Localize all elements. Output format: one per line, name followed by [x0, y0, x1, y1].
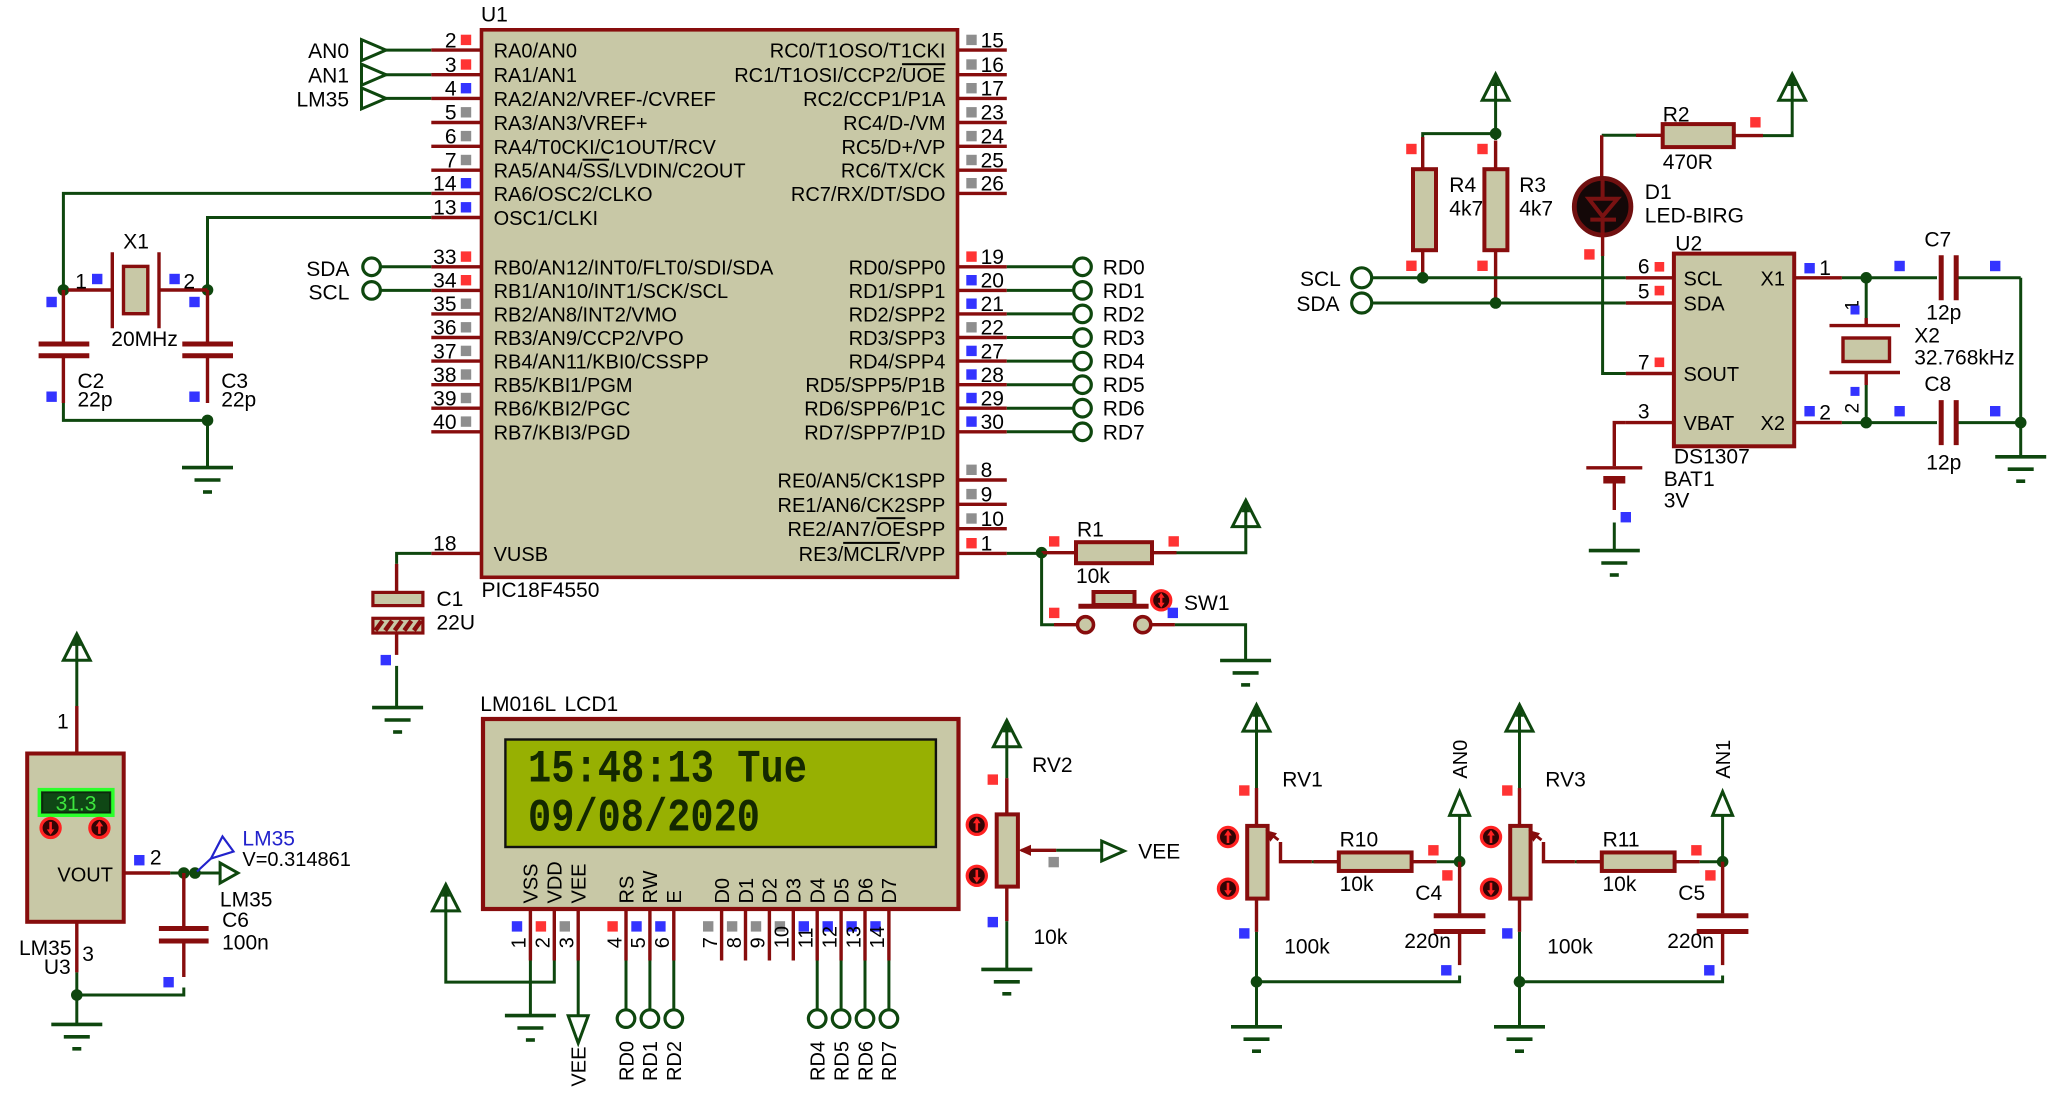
IC U1 PIC18F4550 body	[482, 30, 958, 578]
svg-text:8: 8	[724, 937, 746, 948]
svg-text:20: 20	[981, 270, 1004, 293]
svg-text:6: 6	[1638, 256, 1650, 279]
svg-text:RD0: RD0	[616, 1041, 638, 1081]
svg-text:220n: 220n	[1404, 930, 1451, 953]
U2 pin 6 SCL	[1626, 276, 1674, 279]
crystal X2 32.768kHz	[1865, 278, 1868, 318]
power +5V (R2)	[1779, 74, 1806, 100]
svg-text:5: 5	[1638, 281, 1650, 304]
power +5V (RV2)	[993, 720, 1020, 746]
capacitor C8 12p	[1866, 421, 1937, 424]
resistor R1 10k	[1042, 551, 1076, 554]
U1 pin 9	[958, 503, 1007, 506]
node LM35 ground	[71, 989, 83, 1001]
svg-text:3: 3	[1638, 400, 1650, 423]
svg-text:RA3/AN3/VREF+: RA3/AN3/VREF+	[494, 113, 648, 135]
svg-text:X1: X1	[1761, 268, 1785, 290]
svg-text:2: 2	[1819, 402, 1831, 425]
U1 pin 39 RB6	[431, 407, 480, 410]
node RV3 ground	[1514, 976, 1526, 988]
U1 pin 40 RB7	[431, 430, 480, 433]
node X1	[1860, 272, 1872, 284]
svg-text:3: 3	[557, 937, 579, 948]
wire LM35 pin1	[75, 660, 78, 706]
svg-text:D7: D7	[879, 878, 901, 904]
svg-text:RC4/D-/VM: RC4/D-/VM	[843, 113, 945, 135]
svg-text:R3: R3	[1519, 174, 1546, 197]
terminal RD2 (LCD)	[672, 961, 675, 1010]
svg-text:24: 24	[981, 126, 1005, 149]
svg-text:RD1/SPP1: RD1/SPP1	[849, 281, 946, 303]
svg-text:RB6/KBI2/PGC: RB6/KBI2/PGC	[494, 399, 631, 421]
svg-text:4: 4	[445, 78, 457, 101]
svg-text:6: 6	[445, 126, 457, 149]
svg-text:C8: C8	[1924, 373, 1951, 396]
wire AN0 to U1	[386, 49, 431, 52]
voltage probe LM35 (blue)	[211, 837, 234, 859]
svg-text:7: 7	[700, 937, 722, 948]
svg-text:5: 5	[445, 102, 457, 125]
svg-text:RB7/KBI3/PGD: RB7/KBI3/PGD	[494, 422, 631, 444]
svg-text:34: 34	[433, 270, 457, 293]
ground (RV1)	[1231, 1025, 1282, 1029]
svg-text:1: 1	[1819, 257, 1831, 280]
U1 pin 26	[958, 192, 1007, 195]
resistor R3 4k7	[1494, 134, 1497, 140]
wire X1 to crystal	[1842, 276, 1866, 279]
terminal RD7 (LCD)	[887, 961, 890, 1010]
svg-text:VSS: VSS	[521, 863, 543, 903]
svg-text:18: 18	[433, 533, 456, 556]
wire LCD VSS to ground	[529, 961, 532, 1016]
wire SCL to U1 pin34	[381, 289, 431, 292]
svg-text:RE0/AN5/CK1SPP: RE0/AN5/CK1SPP	[778, 471, 946, 493]
node R4/R3 VCC	[1490, 128, 1502, 140]
potentiometer RV3 100k	[1518, 788, 1521, 826]
svg-text:5: 5	[628, 937, 650, 948]
svg-text:RD4/SPP4: RD4/SPP4	[849, 352, 946, 374]
svg-text:12: 12	[819, 926, 841, 948]
U1 pin 13 OSC1	[431, 216, 480, 219]
capacitor C6 100n	[182, 873, 185, 926]
svg-text:22: 22	[981, 317, 1004, 340]
svg-text:29: 29	[981, 387, 1004, 410]
U2 pin 7 SOUT	[1626, 372, 1674, 375]
svg-text:RD7: RD7	[879, 1041, 901, 1081]
svg-text:RC2/CCP1/P1A: RC2/CCP1/P1A	[803, 89, 946, 111]
svg-text:LM35: LM35	[242, 828, 295, 851]
svg-text:10: 10	[772, 926, 794, 948]
terminal LM35 (output)	[220, 863, 238, 883]
svg-text:7: 7	[1638, 351, 1650, 374]
U1 pin 14 RA6	[431, 192, 480, 195]
ground (crystal)	[182, 466, 233, 470]
svg-text:RS: RS	[616, 876, 638, 904]
node X1 pin1	[58, 284, 70, 296]
power +5V (LCD VDD)	[432, 885, 459, 911]
svg-text:3: 3	[445, 54, 457, 77]
svg-text:RA4/T0CKI/C1OUT/RCV: RA4/T0CKI/C1OUT/RCV	[494, 137, 717, 159]
U1 pin 1	[958, 552, 1007, 555]
node SDA/R3	[1490, 297, 1502, 309]
U1 pin 27	[958, 359, 1007, 362]
U1 pin 38 RB5	[431, 383, 480, 386]
ground (C1)	[372, 706, 423, 710]
RV3 actuator up	[1481, 827, 1500, 846]
svg-text:2: 2	[1843, 403, 1864, 414]
U2 pin 3 VBAT	[1626, 421, 1674, 424]
U1 pin 35 RB2	[431, 312, 480, 315]
svg-text:10k: 10k	[1076, 565, 1110, 588]
svg-text:LM35: LM35	[296, 88, 349, 111]
svg-text:C4: C4	[1415, 882, 1442, 905]
terminal AN0	[1458, 816, 1461, 862]
svg-text:2: 2	[445, 29, 457, 52]
svg-text:RE3/MCLR/VPP: RE3/MCLR/VPP	[799, 544, 946, 566]
resistor R11 10k	[1575, 860, 1602, 863]
terminal RD5 (LCD)	[840, 961, 843, 1010]
wire RV1 top	[1255, 731, 1258, 788]
svg-text:C1: C1	[437, 588, 464, 611]
svg-text:RB1/AN10/INT1/SCK/SCL: RB1/AN10/INT1/SCK/SCL	[494, 281, 729, 303]
svg-text:D4: D4	[808, 878, 830, 904]
node VOUT b	[189, 867, 201, 879]
U1 pin 17	[958, 97, 1007, 100]
sensor U3 LM35 body	[27, 754, 124, 922]
svg-text:DS1307: DS1307	[1674, 446, 1750, 469]
svg-text:8: 8	[981, 459, 993, 482]
ground (LM35)	[51, 1023, 102, 1027]
svg-text:RE2/AN7/OESPP: RE2/AN7/OESPP	[788, 519, 946, 541]
svg-text:X1: X1	[123, 231, 149, 254]
U1 pin 3 RA1	[431, 73, 480, 76]
input terminal LM35	[362, 88, 387, 109]
input terminal AN0	[362, 40, 387, 61]
svg-text:14: 14	[433, 173, 457, 196]
svg-text:14: 14	[867, 926, 889, 948]
terminal RD7	[1007, 430, 1074, 433]
svg-text:VEE: VEE	[1138, 841, 1180, 864]
svg-text:RA5/AN4/SS/LVDIN/C2OUT: RA5/AN4/SS/LVDIN/C2OUT	[494, 161, 746, 183]
svg-text:AN0: AN0	[1450, 740, 1472, 779]
node RV1 ground	[1251, 976, 1263, 988]
svg-text:D1: D1	[736, 878, 758, 904]
svg-text:SOUT: SOUT	[1684, 364, 1740, 386]
svg-text:1: 1	[509, 937, 531, 948]
capacitor C3	[206, 290, 209, 342]
U2 pin 2 X2	[1794, 421, 1842, 424]
ground (RV3)	[1494, 1025, 1545, 1029]
svg-text:22U: 22U	[437, 612, 476, 635]
RV1 wiper	[1281, 842, 1312, 862]
capacitor C4 220n	[1458, 862, 1461, 914]
svg-text:U2: U2	[1675, 233, 1702, 256]
svg-text:470R: 470R	[1663, 151, 1713, 174]
svg-text:35: 35	[433, 293, 456, 316]
svg-text:09/08/2020: 09/08/2020	[528, 793, 760, 845]
svg-text:RD6/SPP6/P1C: RD6/SPP6/P1C	[804, 399, 945, 421]
wire RV3 top	[1518, 731, 1521, 788]
svg-text:RD0: RD0	[1103, 256, 1145, 279]
svg-text:RC0/T1OSO/T1CKI: RC0/T1OSO/T1CKI	[770, 41, 946, 63]
U1 pin 23	[958, 121, 1007, 124]
svg-text:E: E	[664, 890, 686, 903]
terminal RD1 (LCD)	[648, 961, 651, 1010]
svg-text:12p: 12p	[1926, 452, 1961, 475]
svg-text:RC6/TX/CK: RC6/TX/CK	[841, 161, 946, 183]
node SCL/R4	[1417, 272, 1429, 284]
wire C7/C8 right to ground	[2019, 278, 2022, 423]
capacitor C5 220n	[1721, 862, 1724, 914]
svg-text:D0: D0	[712, 878, 734, 904]
svg-text:RD4: RD4	[1103, 351, 1145, 374]
svg-text:VUSB: VUSB	[494, 544, 548, 566]
svg-text:RD5/SPP5/P1B: RD5/SPP5/P1B	[805, 375, 945, 397]
svg-text:X2: X2	[1914, 324, 1940, 347]
terminal AN1	[1721, 816, 1724, 862]
svg-text:31.3: 31.3	[56, 793, 97, 816]
potentiometer RV1 100k	[1255, 788, 1258, 826]
wire C6 to LM35 pin3	[77, 988, 184, 996]
power +5V (RV1)	[1243, 705, 1270, 731]
resistor R2 470R	[1636, 134, 1663, 137]
node X2	[1860, 417, 1872, 429]
RV2 wiper	[1022, 849, 1057, 852]
svg-text:RE1/AN6/CK2SPP: RE1/AN6/CK2SPP	[778, 495, 946, 517]
wire VCC to R4/R3	[1494, 100, 1497, 133]
svg-text:D6: D6	[855, 878, 877, 904]
svg-text:RC1/T1OSI/CCP2/UOE: RC1/T1OSI/CCP2/UOE	[734, 65, 945, 87]
LCD screen	[505, 740, 936, 848]
U1 pin 34 RB1	[431, 289, 480, 292]
svg-text:U3: U3	[44, 956, 71, 979]
wire U1 pin18 VUSB to C1	[397, 553, 432, 564]
svg-text:V=0.314861: V=0.314861	[242, 849, 350, 871]
U1 pin 2 RA0	[431, 48, 480, 51]
ground (BAT1)	[1589, 549, 1640, 553]
IC U2 DS1307 body	[1674, 254, 1794, 447]
svg-text:RD6: RD6	[1103, 398, 1145, 421]
terminal RD4	[1007, 360, 1074, 363]
svg-text:10k: 10k	[1603, 873, 1637, 896]
U2 pin 5 SDA	[1626, 301, 1674, 304]
svg-text:RD5: RD5	[1103, 374, 1145, 397]
svg-text:220n: 220n	[1667, 930, 1714, 953]
svg-text:RD6: RD6	[855, 1041, 877, 1081]
svg-text:C6: C6	[222, 909, 249, 932]
RV1 actuator down	[1218, 879, 1237, 898]
svg-text:40: 40	[433, 411, 456, 434]
LM35 display	[39, 790, 113, 816]
wire SDA bus	[1372, 302, 1626, 305]
capacitor C7 12p	[1866, 276, 1937, 279]
svg-text:LCD1: LCD1	[565, 693, 619, 716]
svg-text:C7: C7	[1924, 229, 1951, 252]
terminal SDA (U1 side)	[363, 258, 381, 276]
terminal RD5	[1007, 383, 1074, 386]
wire to ground (LM35)	[75, 995, 78, 1024]
svg-text:VOUT: VOUT	[57, 865, 113, 887]
wire U1 pin1 RE3 to R1	[1007, 552, 1042, 555]
LM35 actuator down	[41, 818, 60, 837]
terminal RD4 (LCD)	[816, 961, 819, 1010]
svg-text:SDA: SDA	[1684, 294, 1726, 316]
U1 pin 37 RB4	[431, 359, 480, 362]
U1 pin 6 RA4	[431, 145, 480, 148]
svg-text:11: 11	[796, 928, 818, 949]
svg-text:2: 2	[150, 846, 162, 869]
svg-text:VEE: VEE	[569, 863, 591, 903]
svg-text:36: 36	[433, 317, 456, 340]
resistor R4 4k7	[1421, 137, 1424, 169]
RV2 actuator up	[967, 815, 986, 834]
svg-text:RD7: RD7	[1103, 421, 1145, 444]
svg-text:RB3/AN9/CCP2/VPO: RB3/AN9/CCP2/VPO	[494, 328, 684, 350]
svg-text:RD3: RD3	[1103, 327, 1145, 350]
svg-text:2: 2	[183, 270, 195, 293]
svg-text:D1: D1	[1645, 181, 1672, 204]
svg-text:39: 39	[433, 387, 456, 410]
node R11/C5/AN1	[1717, 856, 1729, 868]
svg-text:RD4: RD4	[808, 1041, 830, 1081]
ground (RV2)	[981, 968, 1032, 972]
svg-text:1: 1	[57, 711, 69, 734]
U1 pin 22	[958, 336, 1007, 339]
svg-text:9: 9	[748, 937, 770, 948]
svg-text:BAT1: BAT1	[1664, 468, 1715, 491]
ground (C7/C8)	[1995, 455, 2046, 459]
wire U1 pin14 RA6/OSC2 to X1 pin1	[63, 193, 431, 290]
svg-text:AN1: AN1	[308, 65, 349, 88]
svg-text:10k: 10k	[1340, 873, 1374, 896]
node R1/SW1 junction	[1036, 547, 1048, 559]
svg-text:VBAT: VBAT	[1684, 413, 1735, 435]
switch SW1	[1042, 553, 1054, 625]
svg-text:RB4/AN11/KBI0/CSSPP: RB4/AN11/KBI0/CSSPP	[494, 352, 709, 374]
U1 pin 18 VUSB	[431, 552, 480, 555]
RV2 actuator down	[967, 866, 986, 885]
svg-text:RW: RW	[640, 870, 662, 903]
svg-text:13: 13	[433, 197, 456, 220]
svg-text:RA6/OSC2/CLKO: RA6/OSC2/CLKO	[494, 184, 653, 206]
node R10/C4/AN0	[1454, 856, 1466, 868]
svg-text:SDA: SDA	[1296, 293, 1339, 316]
svg-text:13: 13	[843, 926, 865, 948]
wire RV2 bottom to ground	[1005, 921, 1008, 969]
potentiometer RV2 10k	[1005, 778, 1008, 814]
svg-text:4k7: 4k7	[1449, 198, 1483, 221]
svg-text:AN1: AN1	[1713, 740, 1735, 779]
terminal RD6 (LCD)	[864, 961, 867, 1010]
RV1 actuator up	[1218, 827, 1237, 846]
svg-text:23: 23	[981, 102, 1004, 125]
wire R1 to VCC	[1177, 527, 1246, 553]
capacitor C2	[62, 290, 65, 342]
svg-text:RV2: RV2	[1032, 754, 1072, 777]
U1 pin 20	[958, 289, 1007, 292]
svg-text:25: 25	[981, 149, 1004, 172]
svg-text:33: 33	[433, 246, 456, 269]
svg-text:20MHz: 20MHz	[111, 328, 178, 351]
RV3 actuator down	[1481, 879, 1500, 898]
terminal RD6	[1007, 407, 1074, 410]
svg-text:D5: D5	[831, 878, 853, 904]
svg-text:RC7/RX/DT/SDO: RC7/RX/DT/SDO	[791, 184, 945, 206]
svg-text:RA2/AN2/VREF-/CVREF: RA2/AN2/VREF-/CVREF	[494, 89, 716, 111]
svg-text:19: 19	[981, 246, 1004, 269]
svg-text:RD1: RD1	[1103, 280, 1145, 303]
wire to ground	[206, 420, 209, 467]
wire VDD supply	[446, 911, 555, 982]
LM35 actuator up	[90, 818, 109, 837]
U1 pin 25	[958, 168, 1007, 171]
svg-text:2: 2	[533, 937, 555, 948]
svg-text:26: 26	[981, 173, 1004, 196]
svg-text:4: 4	[604, 937, 626, 948]
svg-text:1: 1	[75, 270, 87, 293]
svg-text:3: 3	[82, 943, 94, 966]
svg-text:RB2/AN8/INT2/VMO: RB2/AN8/INT2/VMO	[494, 304, 677, 326]
svg-text:X2: X2	[1761, 413, 1785, 435]
input terminal AN1	[362, 64, 387, 85]
wire X2 to crystal	[1842, 421, 1866, 424]
svg-text:RD7/SPP7/P1D: RD7/SPP7/P1D	[804, 422, 945, 444]
svg-text:R2: R2	[1663, 104, 1690, 127]
terminal RD0 (LCD)	[625, 961, 628, 1010]
svg-text:12p: 12p	[1926, 302, 1961, 325]
terminal SCL (U1 side)	[363, 282, 381, 300]
U1 pin 33 RB0	[431, 265, 480, 268]
svg-text:RD2: RD2	[1103, 303, 1145, 326]
svg-text:10k: 10k	[1034, 926, 1068, 949]
terminal VEE (RV2 wiper)	[1102, 841, 1125, 861]
terminal RD2	[1007, 312, 1074, 315]
wire C1 to ground	[395, 666, 398, 706]
svg-text:7: 7	[445, 149, 457, 172]
svg-text:RV1: RV1	[1282, 769, 1322, 792]
node C3 ground junction	[202, 415, 214, 427]
svg-text:6: 6	[652, 937, 674, 948]
wire R2 to VCC	[1763, 100, 1792, 135]
ground (SW1)	[1220, 659, 1271, 663]
terminal VEE (LCD pin3, down arrow)	[577, 961, 580, 1016]
svg-text:SCL: SCL	[1300, 268, 1341, 291]
U1 pin 5 RA3	[431, 121, 480, 124]
svg-text:LM016L: LM016L	[480, 693, 556, 716]
svg-text:RA1/AN1: RA1/AN1	[494, 65, 577, 87]
svg-text:17: 17	[981, 78, 1004, 101]
terminal RD1	[1007, 289, 1074, 292]
U1 pin 36 RB3	[431, 336, 480, 339]
svg-text:1: 1	[981, 533, 993, 556]
wire C5 to RV3 bottom	[1520, 976, 1723, 982]
svg-text:RB5/KBI1/PGM: RB5/KBI1/PGM	[494, 375, 633, 397]
svg-text:30: 30	[981, 411, 1004, 434]
wire C2/C3 bottom to ground	[63, 403, 207, 420]
terminal RD3	[1007, 336, 1074, 339]
svg-text:SDA: SDA	[306, 258, 349, 281]
svg-text:RA0/AN0: RA0/AN0	[494, 41, 577, 63]
svg-text:U1: U1	[481, 4, 508, 27]
wire C4 to RV1 bottom	[1257, 976, 1460, 982]
svg-text:D3: D3	[784, 878, 806, 904]
wire U1 pin13 OSC1 to X1 pin2	[208, 218, 432, 291]
node VOUT a	[178, 867, 190, 879]
RV3 wiper	[1544, 842, 1575, 862]
svg-text:RD2/SPP2: RD2/SPP2	[849, 304, 946, 326]
svg-text:R4: R4	[1449, 174, 1476, 197]
svg-text:16: 16	[981, 54, 1004, 77]
